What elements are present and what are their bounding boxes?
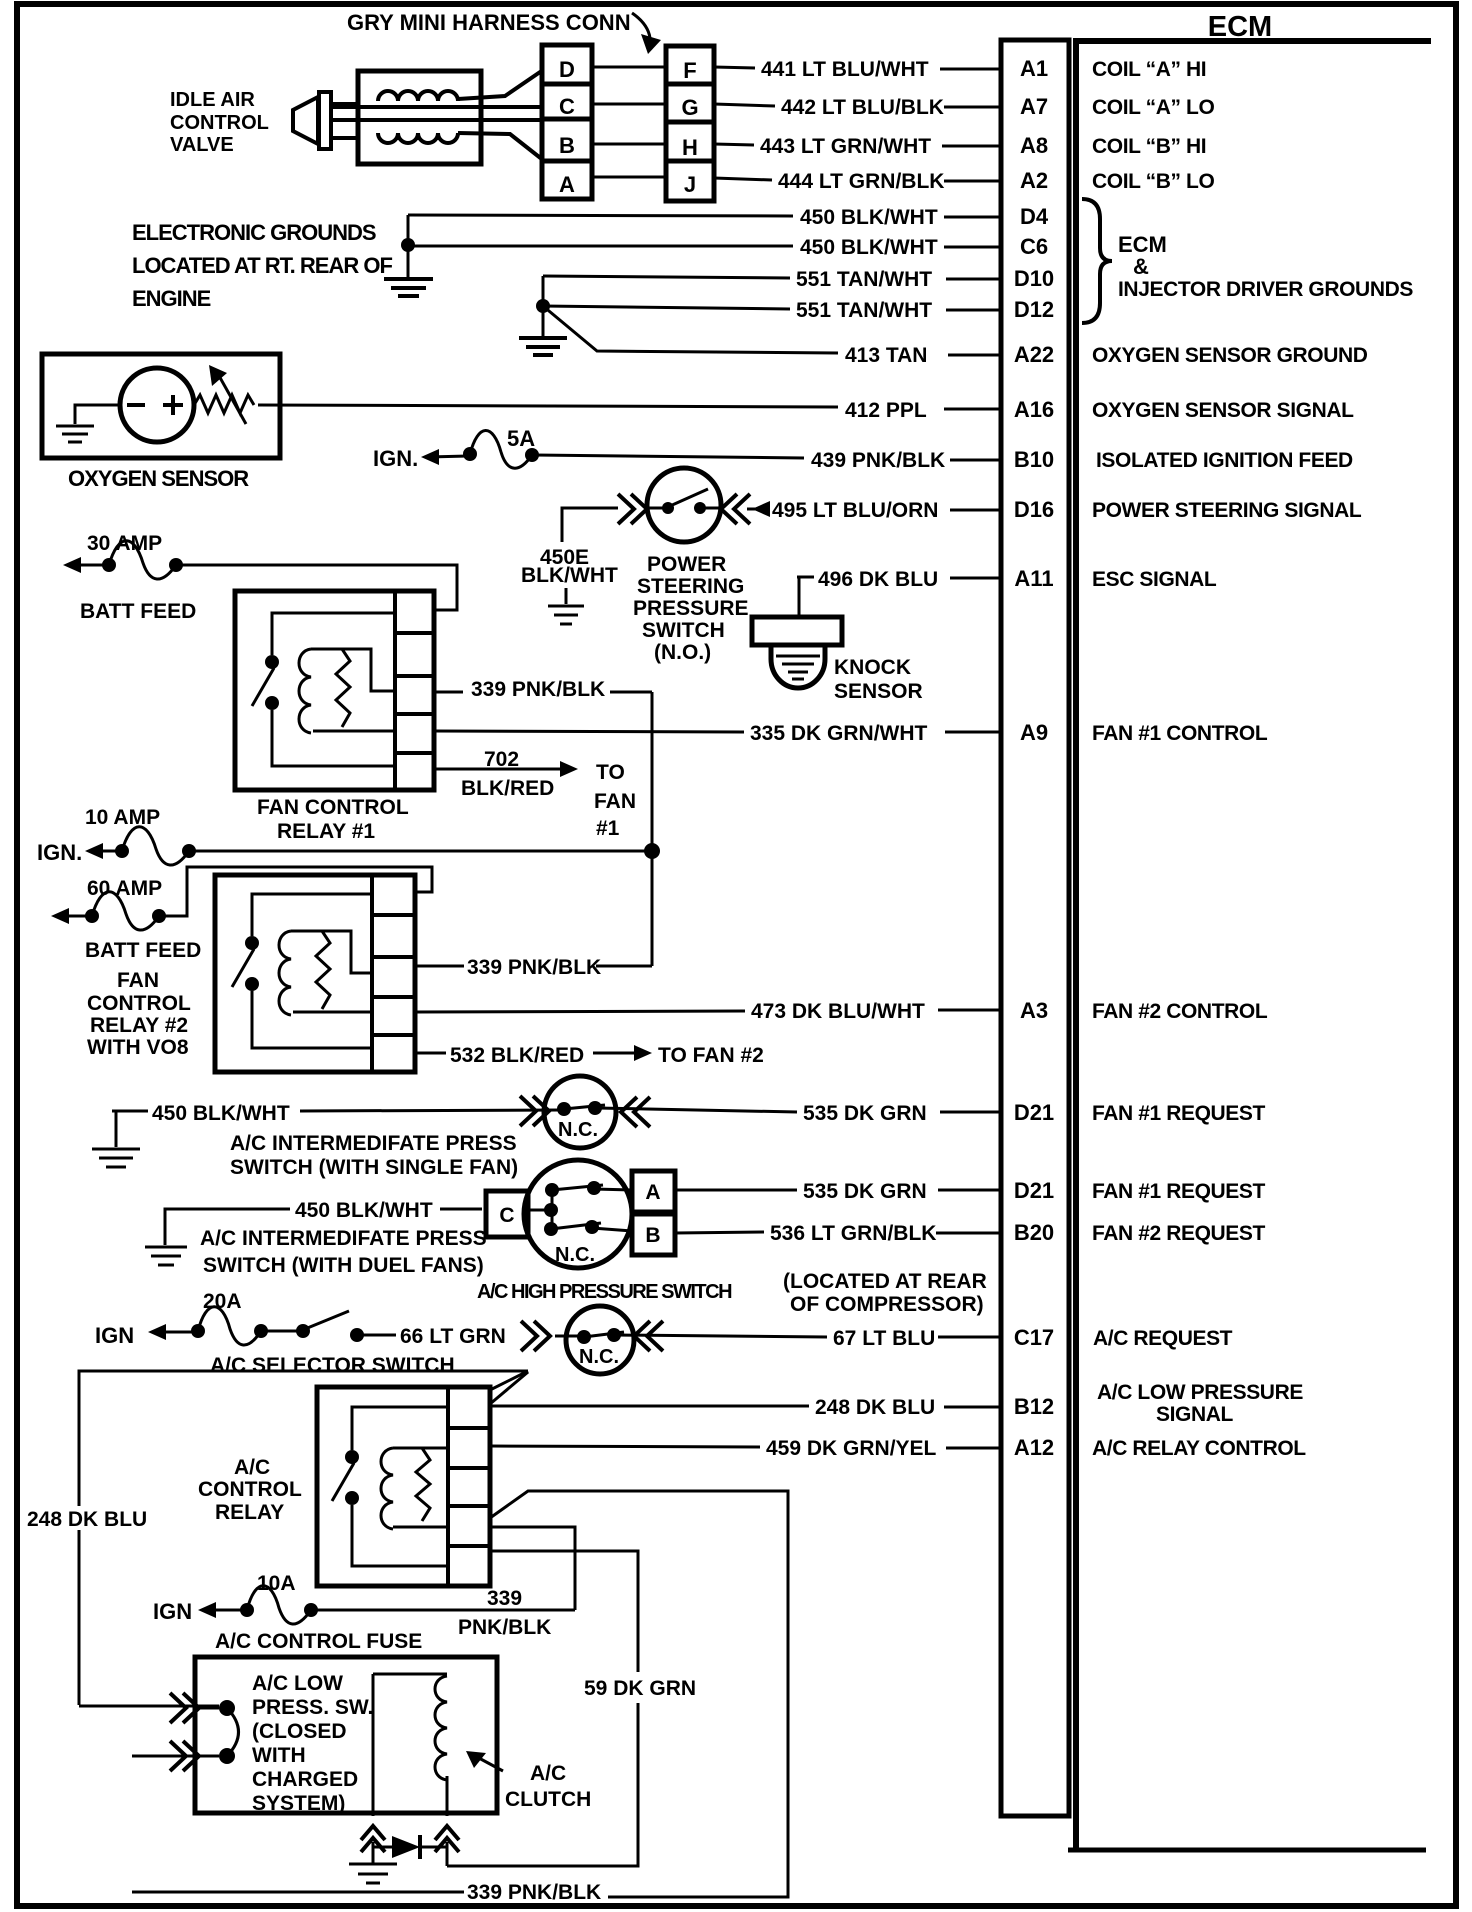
ground A/C clutch <box>349 1864 397 1883</box>
chevron under left leg <box>361 1826 385 1852</box>
wire relay to 10A fuse <box>490 1527 575 1610</box>
svg-text:ELECTRONIC GROUNDS: ELECTRONIC GROUNDS <box>132 220 376 245</box>
A/C clutch coil <box>373 1674 447 1780</box>
svg-text:F: F <box>683 58 696 83</box>
svg-text:450 BLK/WHT: 450 BLK/WHT <box>295 1199 433 1222</box>
svg-text:A/C INTERMEDIFATE PRESS: A/C INTERMEDIFATE PRESS <box>200 1227 487 1250</box>
svg-text:PRESS. SW.: PRESS. SW. <box>252 1696 373 1719</box>
svg-text:59 DK GRN: 59 DK GRN <box>584 1677 696 1700</box>
svg-text:POWER: POWER <box>647 553 726 576</box>
svg-text:532 BLK/RED: 532 BLK/RED <box>450 1044 584 1067</box>
relay 2 connector cells <box>372 875 415 1072</box>
wire 10A fuse to relay <box>313 1609 575 1612</box>
brace ECM and injector driver grounds <box>1082 199 1413 323</box>
chevrons right of press switch 1 <box>621 1097 650 1127</box>
A/C relay coil <box>381 1448 448 1529</box>
svg-text:A/C CONTROL FUSE: A/C CONTROL FUSE <box>215 1630 422 1653</box>
svg-text:439 PNK/BLK: 439 PNK/BLK <box>811 449 945 472</box>
wire vertical 339 junction <box>651 692 654 966</box>
svg-text:POWER STEERING SIGNAL: POWER STEERING SIGNAL <box>1092 499 1362 522</box>
oxygen sensor cell <box>75 368 194 442</box>
svg-text:CONTROL: CONTROL <box>198 1478 302 1501</box>
svg-text:C6: C6 <box>1020 234 1048 259</box>
wire 450E BLK/WHT <box>521 508 618 587</box>
svg-text:535 DK GRN: 535 DK GRN <box>803 1180 927 1203</box>
svg-text:CONTROL: CONTROL <box>170 112 269 134</box>
A/C control relay box <box>317 1387 490 1586</box>
svg-text:67 LT BLU: 67 LT BLU <box>833 1327 935 1350</box>
svg-text:FAN #2 CONTROL: FAN #2 CONTROL <box>1092 1000 1268 1023</box>
label (LOCATED AT REAR OF COMPRESSOR) <box>783 1270 987 1316</box>
svg-text:FAN #1 REQUEST: FAN #1 REQUEST <box>1092 1180 1266 1203</box>
fuse 60 AMP <box>85 892 166 930</box>
svg-text:IGN.: IGN. <box>373 446 418 471</box>
label A/C INTERMEDIFATE PRESS SWITCH (WITH DUEL FANS) <box>200 1227 487 1277</box>
wire 450 BLK/WHT duel fans <box>295 1199 482 1222</box>
svg-text:A/C SELECTOR SWITCH: A/C SELECTOR SWITCH <box>210 1354 455 1377</box>
svg-text:ESC SIGNAL: ESC SIGNAL <box>1092 568 1217 591</box>
knock sensor <box>752 617 842 688</box>
arrow IGN 10A <box>85 843 120 859</box>
svg-text:A/C INTERMEDIFATE PRESS: A/C INTERMEDIFATE PRESS <box>230 1132 517 1155</box>
svg-text:PRESSURE: PRESSURE <box>633 597 749 620</box>
svg-text:A12: A12 <box>1014 1435 1054 1460</box>
svg-text:495 LT BLU/ORN: 495 LT BLU/ORN <box>772 499 938 522</box>
svg-text:339: 339 <box>487 1587 522 1610</box>
svg-text:BLK/RED: BLK/RED <box>461 777 554 800</box>
svg-text:BATT FEED: BATT FEED <box>80 600 196 623</box>
svg-text:BLK/WHT: BLK/WHT <box>521 564 618 587</box>
ground A/C intermediate press switch duel fans <box>145 1209 290 1265</box>
wire batt feed to relay 2 <box>161 867 432 916</box>
svg-text:COIL “A” LO: COIL “A” LO <box>1092 96 1214 119</box>
ECM box <box>1068 41 1431 1850</box>
svg-text:335 DK GRN/WHT: 335 DK GRN/WHT <box>750 722 928 745</box>
wire 441 LT BLU/WHT <box>714 58 1003 81</box>
label FAN CONTROL RELAY #2 WITH VO8 <box>87 969 191 1059</box>
connector B box <box>632 1214 675 1255</box>
relay 1 coil <box>299 649 395 733</box>
diode <box>373 1835 447 1859</box>
wire 439 PNK/BLK to B10 <box>534 449 1003 472</box>
arrow to A/C clutch <box>466 1751 503 1771</box>
wire 444 LT GRN/BLK <box>714 170 1003 193</box>
svg-text:TO: TO <box>596 761 625 784</box>
svg-text:B: B <box>645 1224 660 1247</box>
relay 2 switch <box>232 894 372 1048</box>
svg-text:10A: 10A <box>257 1572 296 1595</box>
wire 495 LT BLU/ORN to D16 <box>747 499 1003 522</box>
connector DCBA <box>542 45 592 199</box>
low pressure switch contacts <box>219 1700 239 1764</box>
fuse 10A A/C control <box>240 1586 318 1624</box>
label A/C CONTROL RELAY <box>198 1456 302 1524</box>
wire 532 BLK/RED to fan 2 <box>415 1044 652 1067</box>
chevrons left of A/C request switch <box>555 1335 578 1338</box>
svg-text:A: A <box>559 172 575 197</box>
wire 536 LT GRN/BLK to B20 <box>675 1222 1003 1245</box>
wire 496 DK BLU to A11 <box>797 568 1003 617</box>
svg-text:B: B <box>559 133 575 158</box>
oxygen sensor box <box>42 354 280 458</box>
ground electronic 2 <box>519 276 567 355</box>
svg-text:ENGINE: ENGINE <box>132 286 211 311</box>
svg-text:C: C <box>499 1204 514 1227</box>
svg-text:N.C.: N.C. <box>558 1119 598 1141</box>
wire 450 BLK/WHT to C6 <box>408 236 1003 259</box>
A/C request switch N.C. <box>566 1306 634 1374</box>
svg-text:#1: #1 <box>596 817 620 840</box>
svg-text:A22: A22 <box>1014 342 1054 367</box>
wire right leg to 59 DK GRN <box>446 1842 449 1866</box>
svg-text:BATT FEED: BATT FEED <box>85 939 201 962</box>
svg-text:SYSTEM): SYSTEM) <box>252 1792 345 1815</box>
svg-text:339 PNK/BLK: 339 PNK/BLK <box>467 1881 601 1904</box>
A/C intermediate press switch single fan <box>544 1076 616 1148</box>
wire 335 DK GRN/WHT to A9 <box>434 722 1003 745</box>
A/C low pressure switch box <box>195 1657 497 1813</box>
label KNOCK SENSOR <box>834 656 923 703</box>
svg-text:A8: A8 <box>1020 133 1048 158</box>
label ELECTRONIC GROUNDS LOCATED AT RT. REAR OF ENGINE <box>132 220 392 311</box>
wire 551 TAN/WHT to D10 <box>543 268 1003 291</box>
chevrons left of press switch 1 <box>520 1096 549 1126</box>
svg-text:A/C RELAY CONTROL: A/C RELAY CONTROL <box>1092 1437 1306 1460</box>
idle air control valve <box>293 70 543 164</box>
svg-text:D: D <box>559 57 575 82</box>
svg-text:SENSOR: SENSOR <box>834 680 923 703</box>
svg-text:450 BLK/WHT: 450 BLK/WHT <box>800 206 938 229</box>
connector A box <box>632 1171 675 1212</box>
wire 67 LT BLU to C17 <box>616 1327 1003 1350</box>
label IDLE AIR CONTROL VALVE <box>170 89 269 156</box>
svg-text:IDLE AIR: IDLE AIR <box>170 89 255 111</box>
chevron under right leg <box>435 1826 459 1852</box>
ground oxygen sensor <box>56 426 94 442</box>
svg-text:D21: D21 <box>1014 1178 1054 1203</box>
wire 459 DK GRN/YEL to A12 <box>490 1437 1003 1460</box>
svg-text:D21: D21 <box>1014 1100 1054 1125</box>
junction dot 339 <box>644 843 660 859</box>
label POWER STEERING PRESSURE SWITCH (N.O.) <box>633 553 749 664</box>
svg-text:450 BLK/WHT: 450 BLK/WHT <box>800 236 938 259</box>
label A/C LOW PRESS. SW. (CLOSED WITH CHARGED SYSTEM) <box>252 1672 373 1815</box>
svg-text:A/C: A/C <box>234 1456 270 1479</box>
svg-text:D4: D4 <box>1020 204 1049 229</box>
svg-text:FAN: FAN <box>117 969 159 992</box>
svg-text:C: C <box>559 94 575 119</box>
wire 702 BLK/RED to fan 1 <box>434 748 578 800</box>
svg-text:FAN #1 CONTROL: FAN #1 CONTROL <box>1092 722 1268 745</box>
svg-text:GRY MINI HARNESS CONN: GRY MINI HARNESS CONN <box>347 10 631 35</box>
svg-text:A3: A3 <box>1020 998 1048 1023</box>
wire 443 LT GRN/WHT <box>714 135 1003 158</box>
wire A/C relay cell1 diagonal <box>490 1372 528 1404</box>
svg-text:30 AMP: 30 AMP <box>87 532 162 555</box>
A/C relay connector cells <box>448 1387 490 1586</box>
relay 2 coil <box>279 931 372 1015</box>
svg-text:441 LT BLU/WHT: 441 LT BLU/WHT <box>761 58 929 81</box>
svg-text:A/C HIGH PRESSURE SWITCH: A/C HIGH PRESSURE SWITCH <box>477 1281 732 1303</box>
svg-text:B12: B12 <box>1014 1394 1054 1419</box>
svg-text:551 TAN/WHT: 551 TAN/WHT <box>796 268 932 291</box>
signal A/C LOW PRESSURE SIGNAL <box>1097 1381 1303 1426</box>
A/C high pressure switch duel fans <box>522 1160 632 1268</box>
wires DCBA to FGHJ <box>592 67 666 177</box>
wire clutch left leg <box>372 1674 375 1816</box>
svg-text:412 PPL: 412 PPL <box>845 399 927 422</box>
wire 450 BLK/WHT single fan <box>152 1102 560 1125</box>
svg-text:KNOCK: KNOCK <box>834 656 911 679</box>
svg-text:FAN: FAN <box>594 790 636 813</box>
svg-text:339 PNK/BLK: 339 PNK/BLK <box>467 956 601 979</box>
svg-text:FAN CONTROL: FAN CONTROL <box>257 796 409 819</box>
svg-text:248 DK BLU: 248 DK BLU <box>27 1508 147 1531</box>
arrow batt feed 30A <box>63 557 106 573</box>
svg-text:INJECTOR DRIVER GROUNDS: INJECTOR DRIVER GROUNDS <box>1118 278 1413 301</box>
svg-text:D16: D16 <box>1014 497 1054 522</box>
svg-text:OF COMPRESSOR): OF COMPRESSOR) <box>790 1293 984 1316</box>
svg-text:LOCATED AT RT. REAR OF: LOCATED AT RT. REAR OF <box>132 253 392 278</box>
wire 339 PNK/BLK bottom <box>132 1881 601 1904</box>
connector chevrons left of P/S switch <box>618 494 647 524</box>
ground A/C intermediate press switch single fan <box>92 1111 148 1167</box>
wire batt feed to relay 1 <box>178 565 457 610</box>
fuse 30 AMP <box>102 541 183 579</box>
svg-text:OXYGEN SENSOR: OXYGEN SENSOR <box>68 466 249 491</box>
svg-text:PNK/BLK: PNK/BLK <box>458 1616 551 1639</box>
svg-text:A16: A16 <box>1014 397 1054 422</box>
svg-text:459 DK GRN/YEL: 459 DK GRN/YEL <box>766 1437 937 1460</box>
svg-text:H: H <box>682 135 698 160</box>
svg-text:STEERING: STEERING <box>637 575 744 598</box>
svg-text:535 DK GRN: 535 DK GRN <box>803 1102 927 1125</box>
svg-text:702: 702 <box>484 748 519 771</box>
svg-text:66 LT GRN: 66 LT GRN <box>400 1325 506 1348</box>
svg-text:(LOCATED AT REAR: (LOCATED AT REAR <box>783 1270 987 1293</box>
wire 412 PPL to A16 <box>258 399 1003 422</box>
svg-text:A: A <box>645 1181 660 1204</box>
arrow to harness connector <box>632 13 661 54</box>
svg-text:RELAY #2: RELAY #2 <box>90 1014 188 1037</box>
svg-text:ISOLATED IGNITION FEED: ISOLATED IGNITION FEED <box>1096 449 1353 472</box>
wire clutch right leg <box>446 1776 449 1816</box>
svg-text:B20: B20 <box>1014 1220 1054 1245</box>
svg-text:A9: A9 <box>1020 720 1048 745</box>
connector FGHJ <box>666 46 714 201</box>
svg-text:5A: 5A <box>507 426 535 451</box>
A/C selector switch contacts <box>263 1311 396 1342</box>
wire 413 TAN to A22 <box>543 306 1003 367</box>
svg-text:IGN: IGN <box>153 1599 192 1624</box>
arrow IGN 20A <box>148 1324 196 1340</box>
svg-text:G: G <box>681 95 698 120</box>
svg-text:TO FAN #2: TO FAN #2 <box>658 1044 764 1067</box>
svg-text:D12: D12 <box>1014 297 1054 322</box>
A/C relay switch <box>332 1407 448 1566</box>
fan control relay 1 box <box>235 591 434 790</box>
svg-text:FAN #2 REQUEST: FAN #2 REQUEST <box>1092 1222 1266 1245</box>
wire 248 DK BLU left run <box>27 1371 528 1706</box>
ground 450E <box>548 588 584 624</box>
svg-text:(CLOSED: (CLOSED <box>252 1720 347 1743</box>
svg-text:SWITCH (WITH DUEL FANS): SWITCH (WITH DUEL FANS) <box>203 1254 484 1277</box>
svg-text:VALVE: VALVE <box>170 134 234 156</box>
wire 442 LT BLU/BLK <box>714 96 1003 119</box>
svg-text:A2: A2 <box>1020 168 1048 193</box>
fuse 20A <box>191 1307 268 1345</box>
svg-text:A/C REQUEST: A/C REQUEST <box>1093 1327 1233 1350</box>
wire 339 PNK/BLK from relay 1 <box>434 678 652 701</box>
connector C box <box>486 1191 528 1237</box>
svg-text:A7: A7 <box>1020 94 1048 119</box>
svg-text:443 LT GRN/WHT: 443 LT GRN/WHT <box>760 135 931 158</box>
arrow IGN 5A <box>421 449 468 465</box>
svg-text:OXYGEN SENSOR GROUND: OXYGEN SENSOR GROUND <box>1092 344 1368 367</box>
fan control relay 2 box <box>215 875 415 1072</box>
svg-text:551 TAN/WHT: 551 TAN/WHT <box>796 299 932 322</box>
svg-text:SIGNAL: SIGNAL <box>1156 1403 1234 1426</box>
svg-text:SWITCH (WITH SINGLE FAN): SWITCH (WITH SINGLE FAN) <box>230 1156 518 1179</box>
svg-text:442 LT BLU/BLK: 442 LT BLU/BLK <box>781 96 944 119</box>
fuse 10 AMP <box>115 827 196 865</box>
resistor oxygen sensor (variable) <box>194 365 254 424</box>
wire into bottom chevron <box>132 1755 219 1758</box>
label TO FAN #1 <box>594 761 636 840</box>
svg-text:A/C LOW PRESSURE: A/C LOW PRESSURE <box>1097 1381 1303 1404</box>
svg-text:RELAY: RELAY <box>215 1501 284 1524</box>
svg-text:COIL “A” HI: COIL “A” HI <box>1092 58 1206 81</box>
svg-text:OXYGEN SENSOR SIGNAL: OXYGEN SENSOR SIGNAL <box>1092 399 1354 422</box>
ground electronic 1 <box>384 215 433 296</box>
svg-text:N.C.: N.C. <box>555 1244 595 1266</box>
wire left leg stub to ground <box>372 1842 375 1864</box>
chevrons right of A/C request switch <box>634 1321 663 1351</box>
svg-text:IGN.: IGN. <box>37 840 82 865</box>
svg-text:IGN: IGN <box>95 1323 134 1348</box>
label A/C INTERMEDIFATE PRESS SWITCH (WITH SINGLE FAN) <box>230 1132 518 1179</box>
svg-text:SWITCH: SWITCH <box>642 619 725 642</box>
wire 535 DK GRN to D21 second <box>675 1180 1003 1203</box>
power steering pressure switch <box>647 468 721 542</box>
relay 1 switch <box>252 613 395 766</box>
svg-text:10 AMP: 10 AMP <box>85 806 160 829</box>
svg-text:CLUTCH: CLUTCH <box>505 1788 591 1811</box>
wire 450 BLK/WHT to D4 <box>408 206 1003 229</box>
svg-text:A/C LOW: A/C LOW <box>252 1672 343 1695</box>
wire 551 TAN/WHT to D12 <box>543 299 1003 322</box>
svg-text:CONTROL: CONTROL <box>87 992 191 1015</box>
svg-text:FAN #1 REQUEST: FAN #1 REQUEST <box>1092 1102 1266 1125</box>
label A/C CLUTCH <box>505 1762 591 1811</box>
wire 339 PNK/BLK from relay 2 <box>415 956 652 979</box>
svg-text:B10: B10 <box>1014 447 1054 472</box>
svg-text:60 AMP: 60 AMP <box>87 877 162 900</box>
svg-text:WITH VO8: WITH VO8 <box>87 1036 189 1059</box>
svg-text:248 DK BLU: 248 DK BLU <box>815 1396 935 1419</box>
wire 473 DK BLU/WHT to A3 <box>415 1000 1003 1023</box>
svg-text:&: & <box>1133 254 1149 279</box>
label 339 PNK/BLK at relay <box>458 1587 551 1639</box>
svg-text:536 LT GRN/BLK: 536 LT GRN/BLK <box>770 1222 936 1245</box>
fuse 5A <box>463 426 539 468</box>
svg-text:COIL “B” HI: COIL “B” HI <box>1092 135 1206 158</box>
connector chevrons right of P/S switch <box>721 494 750 524</box>
svg-text:450 BLK/WHT: 450 BLK/WHT <box>152 1102 290 1125</box>
svg-text:WITH: WITH <box>252 1744 306 1767</box>
wire 535 DK GRN to D21 <box>597 1102 1003 1125</box>
svg-text:473 DK BLU/WHT: 473 DK BLU/WHT <box>751 1000 925 1023</box>
chevrons into low press switch bottom <box>170 1741 199 1771</box>
svg-text:C17: C17 <box>1014 1325 1054 1350</box>
relay 1 connector cells <box>395 591 434 790</box>
chevrons into low press switch top <box>170 1693 199 1723</box>
wire 339 PNK/BLK to low press switch <box>490 1491 788 1897</box>
svg-text:444 LT GRN/BLK: 444 LT GRN/BLK <box>778 170 944 193</box>
svg-text:J: J <box>684 172 696 197</box>
svg-text:A11: A11 <box>1014 566 1053 591</box>
svg-text:A1: A1 <box>1020 56 1048 81</box>
svg-text:N.C.: N.C. <box>579 1346 619 1368</box>
wire IGN 10A to junction <box>191 850 652 853</box>
svg-text:COIL “B” LO: COIL “B” LO <box>1092 170 1214 193</box>
arrow IGN A/C control fuse <box>198 1602 244 1618</box>
svg-text:RELAY #1: RELAY #1 <box>277 820 375 843</box>
svg-text:413 TAN: 413 TAN <box>845 344 927 367</box>
arrow batt feed 60A <box>51 908 90 924</box>
wire into top chevron <box>199 1707 219 1710</box>
svg-text:496 DK BLU: 496 DK BLU <box>818 568 938 591</box>
label FAN CONTROL RELAY #1 <box>257 796 409 843</box>
ECM connector column <box>1001 40 1069 1816</box>
svg-text:339 PNK/BLK: 339 PNK/BLK <box>471 678 605 701</box>
svg-text:D10: D10 <box>1014 266 1054 291</box>
svg-text:CHARGED: CHARGED <box>252 1768 358 1791</box>
wire 59 DK GRN <box>447 1551 696 1866</box>
wire 248 DK BLU to B12 <box>490 1396 1003 1419</box>
svg-text:(N.O.): (N.O.) <box>654 641 711 664</box>
svg-text:A/C: A/C <box>530 1762 566 1785</box>
